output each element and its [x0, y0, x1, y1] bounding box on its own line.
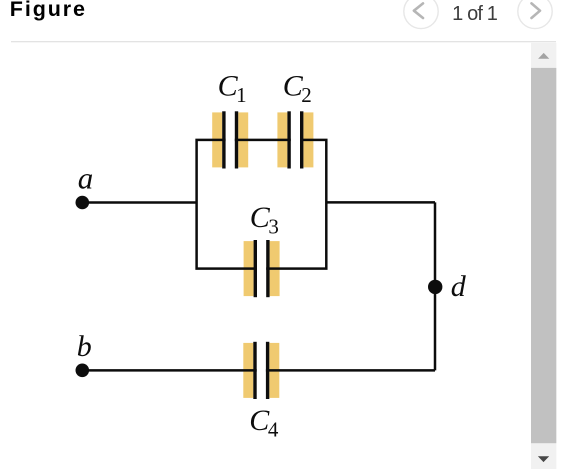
capacitor C3 plates	[254, 240, 270, 297]
capacitor C4 plates	[253, 342, 269, 399]
node a junction dot	[76, 196, 90, 210]
svg-text:1 of 1: 1 of 1	[452, 3, 498, 25]
prev page button	[404, 0, 438, 29]
scrollbar down arrow	[538, 456, 549, 462]
wire parallel box (rectangle loop through C1 C2 and C3)	[197, 140, 327, 269]
label capacitor C4	[249, 404, 279, 442]
label capacitor C2	[283, 70, 312, 108]
svg-text:d: d	[451, 270, 467, 303]
label node b	[77, 330, 92, 363]
label capacitor C1	[218, 70, 247, 108]
header separator line	[11, 41, 556, 42]
svg-text:b: b	[77, 330, 92, 363]
label node d	[451, 270, 467, 303]
wire box to node d riser	[326, 201, 435, 204]
scrollbar up arrow	[538, 53, 549, 59]
svg-text:Figure: Figure	[10, 0, 87, 21]
wire node b to node d through C4	[82, 369, 435, 372]
svg-text:a: a	[78, 160, 94, 195]
node b junction dot	[76, 364, 90, 378]
capacitor C1 plates	[222, 111, 238, 168]
capacitor C1 dielectric highlight	[212, 112, 248, 167]
label node a	[78, 160, 94, 195]
page indicator "1 of 1"	[452, 3, 498, 25]
wire node a to parallel box	[82, 201, 196, 204]
wire vertical through node d	[434, 202, 437, 370]
header title "Figure"	[10, 0, 87, 21]
label capacitor C3	[250, 201, 279, 239]
capacitor C2 dielectric highlight	[277, 112, 313, 167]
capacitor C3 dielectric highlight	[244, 241, 280, 296]
scrollbar thumb	[531, 68, 556, 443]
next page button	[518, 0, 552, 29]
node d junction dot	[428, 280, 442, 294]
capacitor C4 dielectric highlight	[243, 343, 279, 398]
capacitor C2 plates	[287, 111, 303, 168]
scrollbar track	[531, 43, 556, 469]
